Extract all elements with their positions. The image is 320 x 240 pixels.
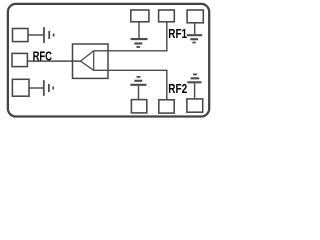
svg-text:RFC: RFC	[33, 49, 52, 63]
svg-text:RF2: RF2	[168, 82, 187, 96]
svg-text:RF1: RF1	[168, 27, 187, 41]
